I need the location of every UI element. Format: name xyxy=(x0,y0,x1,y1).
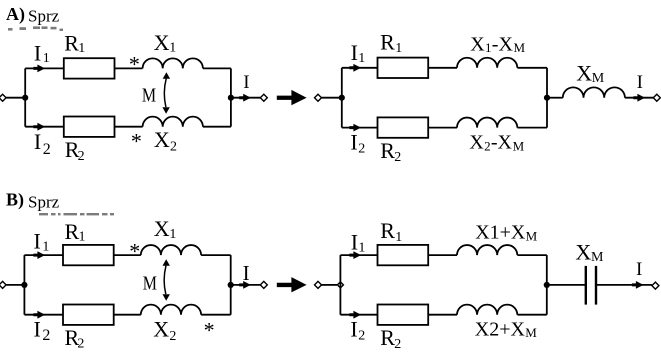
wire A-right bottom branch xyxy=(342,127,378,129)
wire B-left bottom branch xyxy=(24,314,63,316)
wire A-right top branch xyxy=(342,67,378,69)
resistor R1 B-right xyxy=(378,245,429,265)
svg-text:2: 2 xyxy=(43,141,51,158)
wire coil to corner A-right top xyxy=(517,67,547,69)
svg-text:B): B) xyxy=(6,190,24,211)
mutual coupling M arrow A xyxy=(163,72,170,79)
svg-text:X: X xyxy=(469,132,484,154)
svg-text:R: R xyxy=(380,138,395,163)
wire X1 to corner B-left xyxy=(201,254,231,256)
arrow current I2 B-right xyxy=(349,311,361,319)
wire R2 to X2 A-left xyxy=(115,126,143,128)
node A-right input junction xyxy=(339,95,345,101)
wire B-right vertical xyxy=(339,255,341,315)
terminal input A-left xyxy=(0,94,6,101)
arrow current I1 A-left xyxy=(33,65,45,73)
svg-text:*: * xyxy=(204,318,215,343)
svg-text:2: 2 xyxy=(484,138,491,153)
node A-left input junction xyxy=(22,95,28,101)
arrow current I A-right output xyxy=(633,94,645,102)
wire R2 to X2 B-left xyxy=(114,314,141,316)
arrow current I B-right output xyxy=(632,281,644,289)
resistor R2 B-right xyxy=(378,305,429,325)
inductor X1+XM B-right xyxy=(457,245,517,255)
svg-text:Sprz: Sprz xyxy=(28,7,60,26)
svg-text:I: I xyxy=(34,40,41,65)
label M A xyxy=(142,84,156,106)
wire R1 to X1 A-left xyxy=(115,67,143,69)
arrow current I B-left output xyxy=(239,281,251,289)
wire B-right top branch xyxy=(340,254,377,256)
svg-text:1: 1 xyxy=(79,230,86,245)
svg-text:R: R xyxy=(380,218,395,243)
svg-text:X2+X: X2+X xyxy=(475,318,526,340)
wire input B-right xyxy=(322,284,338,286)
wire input A-left xyxy=(6,97,25,99)
equivalence arrow A xyxy=(277,90,307,105)
wire B-left top branch xyxy=(24,254,63,256)
wire A-right mid vertical xyxy=(546,68,548,128)
arrow current I A-left output xyxy=(239,94,251,102)
svg-text:R: R xyxy=(65,219,80,244)
svg-text:I: I xyxy=(34,229,41,254)
svg-text:X: X xyxy=(576,60,592,85)
wire junction to XM A-right xyxy=(547,97,563,99)
svg-text:1: 1 xyxy=(395,41,402,56)
inductor X1 A-left xyxy=(143,58,203,68)
svg-text:2: 2 xyxy=(78,149,85,164)
svg-text:1: 1 xyxy=(78,41,85,56)
wire input A-right xyxy=(322,97,342,99)
arrow current I2 A-right xyxy=(349,124,361,132)
svg-text:M: M xyxy=(592,71,605,86)
inductor X1 B-left xyxy=(141,245,201,255)
node B-right input junction xyxy=(337,282,343,288)
svg-text:X: X xyxy=(575,239,591,264)
wire coil to corner B-right top xyxy=(517,254,546,256)
svg-text:1: 1 xyxy=(358,51,365,66)
svg-text:X: X xyxy=(153,317,169,342)
wire coil to corner B-right bottom xyxy=(517,314,546,316)
wire A-left right vertical xyxy=(230,68,232,126)
wire X1 to corner A-left xyxy=(203,67,231,69)
wire XM to output B-right xyxy=(597,284,652,286)
svg-text:1: 1 xyxy=(485,40,492,55)
svg-text:I: I xyxy=(243,72,249,93)
svg-text:M: M xyxy=(526,228,538,243)
svg-text:2: 2 xyxy=(42,327,50,344)
inductor X2 B-left xyxy=(141,305,201,315)
svg-text:M: M xyxy=(143,272,157,294)
wire B-left vertical xyxy=(23,255,25,315)
svg-text:I: I xyxy=(34,129,41,154)
wire R1 to X1 B-left xyxy=(114,254,141,256)
inductor X2+XM B-right xyxy=(457,305,517,315)
wire R2 to coil A-right xyxy=(428,127,457,129)
svg-text:-X: -X xyxy=(492,33,514,55)
wire output B-left xyxy=(231,284,261,286)
svg-text:X1+X: X1+X xyxy=(475,222,526,244)
svg-text:I: I xyxy=(636,259,642,280)
node B-right mid junction xyxy=(544,282,550,288)
svg-text:2: 2 xyxy=(358,141,365,156)
node B-left output junction xyxy=(228,282,234,288)
wire B-right mid vertical xyxy=(546,255,548,315)
terminal input B-left xyxy=(0,281,6,288)
wire A-left bottom branch xyxy=(25,126,64,128)
svg-text:I: I xyxy=(34,316,41,341)
node B-left input junction xyxy=(21,282,27,288)
svg-text:M: M xyxy=(525,325,537,340)
svg-text:Sprz: Sprz xyxy=(28,193,60,212)
wire R1 to coil B-right xyxy=(428,254,457,256)
wire A-left top branch xyxy=(25,67,64,69)
arrow current I2 B-left xyxy=(33,311,45,319)
svg-text:X: X xyxy=(154,127,170,152)
cropped text remnants under B label xyxy=(39,213,114,215)
wire XM to output A-right xyxy=(625,97,654,99)
resistor R1 A-right xyxy=(378,58,429,78)
wire X2 to corner A-left xyxy=(203,126,231,128)
wire junction to XM capacitor B-right xyxy=(547,284,585,286)
resistor R1 B-left xyxy=(63,245,114,265)
svg-text:*: * xyxy=(129,238,140,263)
mutual coupling M arrow B xyxy=(163,259,170,266)
arrow current I1 A-right xyxy=(349,64,361,72)
arrow current I1 B-right xyxy=(349,251,361,259)
svg-text:M: M xyxy=(142,84,156,106)
capacitor XM B-right xyxy=(585,266,587,305)
svg-text:2: 2 xyxy=(394,337,401,352)
svg-text:-X: -X xyxy=(491,132,513,154)
resistor R2 A-right xyxy=(378,117,429,137)
svg-text:2: 2 xyxy=(394,150,401,165)
svg-text:I: I xyxy=(637,72,643,93)
node A-right mid junction xyxy=(544,95,550,101)
svg-text:1: 1 xyxy=(169,41,176,56)
svg-text:I: I xyxy=(243,261,250,285)
wire R1 to coil A-right xyxy=(428,67,457,69)
wire A-right vertical xyxy=(341,68,343,128)
svg-text:A): A) xyxy=(6,4,25,25)
svg-text:R: R xyxy=(380,29,395,54)
wire B-right bottom branch xyxy=(340,314,377,316)
wire input B-left xyxy=(6,284,24,286)
wire R2 to coil B-right xyxy=(428,314,457,316)
wire output A-left xyxy=(231,97,261,99)
terminal output A-right xyxy=(653,94,660,101)
label M B xyxy=(143,272,157,294)
svg-text:I: I xyxy=(350,129,357,154)
node A-left output junction xyxy=(228,95,234,101)
svg-text:M: M xyxy=(513,138,525,153)
svg-text:*: * xyxy=(131,128,142,153)
inductor X1-XM A-right xyxy=(457,58,517,68)
svg-text:I: I xyxy=(351,40,358,65)
wire coil to corner A-right bottom xyxy=(517,127,547,129)
svg-text:I: I xyxy=(350,316,357,341)
svg-text:*: * xyxy=(129,51,140,76)
svg-text:X: X xyxy=(154,216,170,241)
svg-text:R: R xyxy=(64,30,79,55)
svg-text:2: 2 xyxy=(77,337,84,352)
cropped text remnants under A label xyxy=(8,26,63,31)
wire A-left vertical xyxy=(24,68,26,126)
svg-text:R: R xyxy=(380,325,395,350)
svg-text:M: M xyxy=(591,250,604,265)
terminal input A-right xyxy=(315,94,322,101)
terminal output B-right xyxy=(652,282,659,289)
wire B-left right vertical xyxy=(230,255,232,315)
inductor XM A-right xyxy=(563,87,625,97)
svg-text:2: 2 xyxy=(170,140,177,155)
svg-text:I: I xyxy=(351,230,358,255)
svg-text:1: 1 xyxy=(43,51,50,66)
svg-text:1: 1 xyxy=(358,240,365,255)
svg-text:2: 2 xyxy=(358,328,365,343)
arrow current I1 B-left xyxy=(33,251,45,259)
wire X2 to corner B-left xyxy=(201,314,231,316)
equivalence arrow B xyxy=(277,277,307,292)
svg-text:X: X xyxy=(470,33,485,55)
terminal input B-right xyxy=(315,281,322,288)
resistor R2 A-left xyxy=(64,117,115,137)
resistor R2 B-left xyxy=(63,305,114,325)
arrow current I2 A-left xyxy=(33,123,45,131)
svg-text:1: 1 xyxy=(169,227,176,242)
svg-text:1: 1 xyxy=(395,230,402,245)
svg-text:X: X xyxy=(154,30,170,55)
svg-text:1: 1 xyxy=(42,239,49,254)
resistor R1 A-left xyxy=(64,58,115,78)
terminal output B-left xyxy=(260,281,267,288)
inductor X2-XM A-right xyxy=(457,118,517,128)
inductor X2 A-left xyxy=(143,117,203,127)
svg-text:2: 2 xyxy=(169,329,176,344)
svg-text:M: M xyxy=(514,40,526,55)
terminal output A-left xyxy=(260,94,267,101)
